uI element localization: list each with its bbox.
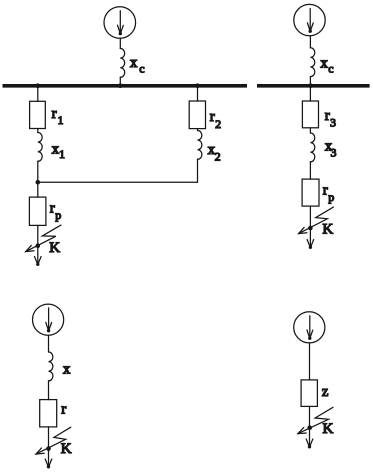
svg-text:r: r <box>325 108 330 124</box>
junction dot <box>308 83 313 88</box>
wire horizontal connector <box>38 181 198 183</box>
wire <box>37 129 39 133</box>
label x1 <box>52 141 65 161</box>
wire <box>119 38 121 48</box>
fault dot <box>308 226 313 231</box>
lightning arrow K1 <box>26 225 61 252</box>
wire <box>197 159 199 182</box>
svg-text:p: p <box>55 208 61 222</box>
svg-text:x: x <box>320 55 328 71</box>
inductor Xc right <box>310 48 314 77</box>
resistor r2 <box>189 101 205 129</box>
svg-text:x: x <box>130 55 138 71</box>
label r1 <box>52 106 64 127</box>
fault dot <box>36 243 41 248</box>
bus bar left <box>3 84 248 88</box>
wire <box>37 87 39 101</box>
wire with arrow to fault <box>35 225 42 266</box>
wire <box>48 381 50 400</box>
label x2 <box>208 142 221 163</box>
source G4 <box>294 312 325 343</box>
junction dot <box>36 83 41 88</box>
wire <box>119 77 121 84</box>
wire <box>37 161 39 197</box>
inductor x1 <box>38 133 42 162</box>
inductor Xc left <box>120 49 124 78</box>
label r3 <box>325 108 336 130</box>
svg-text:2: 2 <box>215 150 221 164</box>
fault dot <box>46 446 51 451</box>
lightning arrow K2 <box>299 207 334 234</box>
inductor x bottom-left <box>49 352 53 381</box>
svg-text:c: c <box>328 62 333 76</box>
svg-text:3: 3 <box>330 116 336 130</box>
svg-text:1: 1 <box>58 113 64 127</box>
wire <box>197 87 199 101</box>
svg-text:3: 3 <box>331 146 337 160</box>
svg-text:r: r <box>61 402 66 418</box>
svg-text:r: r <box>52 106 57 122</box>
wire <box>309 77 311 85</box>
wire <box>309 36 311 48</box>
node dot <box>36 180 41 185</box>
junction dot <box>118 83 123 88</box>
svg-text:z: z <box>322 384 329 400</box>
resistor r3 <box>302 101 318 128</box>
svg-text:x: x <box>63 361 71 377</box>
wire with arrow to fault <box>307 206 314 249</box>
svg-text:K: K <box>61 441 72 457</box>
wire <box>309 87 311 101</box>
svg-text:2: 2 <box>215 117 221 131</box>
svg-text:c: c <box>139 62 144 76</box>
inductor x3 <box>310 133 314 162</box>
svg-text:r: r <box>50 201 55 217</box>
resistor rp right <box>302 179 319 206</box>
svg-text:K: K <box>322 222 333 238</box>
svg-text:1: 1 <box>59 147 65 161</box>
wire <box>309 162 311 179</box>
wire with arrow to fault <box>306 406 313 448</box>
label rp right <box>323 182 335 204</box>
lightning arrow K4 <box>298 407 333 433</box>
source G1 <box>104 7 136 39</box>
resistor z <box>301 380 317 407</box>
bus bar right <box>257 84 370 88</box>
source G2 <box>294 4 325 35</box>
svg-text:r: r <box>323 182 328 198</box>
label x3 <box>325 138 337 159</box>
lightning arrow K3 <box>36 427 71 454</box>
label rp left <box>50 201 62 222</box>
svg-text:K: K <box>323 421 334 437</box>
wire <box>48 335 50 352</box>
inductor x2 <box>198 131 202 160</box>
wire <box>309 128 311 133</box>
wire with arrow to fault <box>45 427 52 469</box>
label r2 <box>210 109 221 131</box>
resistor rp left <box>29 197 46 225</box>
resistor r bottom-left <box>40 400 57 427</box>
svg-text:K: K <box>49 240 60 256</box>
svg-text:p: p <box>328 190 334 204</box>
fault dot <box>307 425 312 430</box>
resistor r1 <box>30 101 46 128</box>
label x_c left <box>130 55 145 76</box>
svg-text:r: r <box>210 109 215 125</box>
source G3 <box>33 304 64 335</box>
wire <box>197 129 199 131</box>
label x_c right <box>320 55 333 75</box>
wire <box>309 343 311 380</box>
junction dot <box>195 83 200 88</box>
